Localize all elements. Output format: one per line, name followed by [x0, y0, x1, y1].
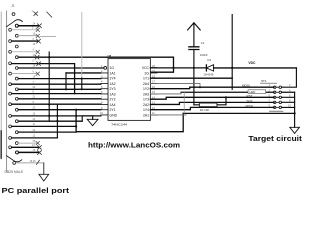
pin 18-25 gnd pin	[13, 162, 16, 165]
wire pin 2	[12, 29, 37, 31]
junction dot	[81, 88, 83, 90]
junction dot	[56, 120, 58, 122]
ground symbol left-bottom	[39, 174, 49, 181]
X pin2	[36, 28, 40, 32]
junction dot	[48, 56, 50, 58]
diode D1	[205, 65, 207, 71]
RST row from U1 pin14	[150, 97, 274, 99]
svg-text:2Y3: 2Y3	[110, 87, 116, 91]
pin 3	[9, 40, 12, 43]
pin 5	[9, 62, 12, 65]
svg-text:VCC: VCC	[142, 66, 150, 70]
MISO row from U1 pin12	[150, 107, 274, 109]
wire pin 15	[18, 35, 55, 38]
pin 11	[9, 125, 12, 128]
ST1 pin numbers	[269, 83, 292, 107]
gnd step under U1	[82, 116, 93, 121]
X pin13	[38, 146, 42, 150]
X pin4	[36, 50, 40, 54]
svg-text:2A1: 2A1	[143, 113, 149, 117]
wire pin 8 to U1 pin6	[12, 93, 101, 95]
wire pin 24	[18, 131, 76, 133]
gnd drop wire left	[43, 163, 45, 174]
pin 17	[15, 56, 18, 59]
VCC row from U1 pin20 to diode	[150, 67, 206, 69]
pin 1	[12, 13, 15, 16]
ST1 pin circle right y92.25	[279, 91, 281, 93]
ST1 pin circle right y102.35	[279, 101, 281, 103]
wire pin 13	[12, 146, 39, 148]
svg-text:ST1: ST1	[261, 79, 267, 83]
svg-text:2A3: 2A3	[143, 92, 149, 96]
ST1 pin circle right y97.3	[279, 96, 281, 98]
wire pin 22 to U1 pin9	[18, 109, 101, 111]
svg-text:1G: 1G	[110, 66, 115, 70]
junction dot	[48, 115, 50, 117]
svg-text:VDC: VDC	[248, 61, 256, 65]
wire pin 20 to U1 pin5	[18, 88, 101, 90]
ground symbol under U1	[87, 119, 98, 125]
ST1 pin circle right y107.4	[279, 106, 281, 108]
svg-text:D1: D1	[208, 58, 212, 62]
U1 left pin stubs	[101, 73, 108, 115]
gray riser x184	[183, 92, 185, 113]
svg-text:RST: RST	[247, 94, 253, 98]
svg-text:100nF: 100nF	[200, 53, 208, 57]
wire gnd pins 18-25	[16, 162, 44, 164]
svg-text:1A3: 1A3	[110, 92, 116, 96]
svg-text:MOSI: MOSI	[242, 84, 250, 88]
svg-text:GND: GND	[110, 113, 118, 117]
slash mark	[37, 160, 40, 164]
sheet border fragment left edge	[0, 12, 2, 159]
wire pin 5	[12, 64, 75, 94]
capacitor C1	[189, 47, 199, 50]
pin 20	[15, 88, 18, 91]
pin 2	[9, 28, 12, 31]
X on pin17 row	[35, 55, 39, 59]
power arrow VCC	[188, 23, 201, 47]
wire pin 7 to U1 pin4	[12, 83, 101, 85]
wire pin 23	[18, 120, 82, 122]
vertical bus x57.4	[56, 104, 58, 137]
svg-text:C1: C1	[201, 41, 205, 45]
SCK row from U1 pin13	[150, 102, 274, 104]
pin 24	[15, 131, 18, 134]
junction dot vdd line	[193, 67, 195, 69]
OE tie top row to U1 pin19	[49, 57, 173, 72]
svg-text:MISO: MISO	[246, 104, 254, 108]
ST1 mid links	[276, 87, 279, 107]
wire shell pin	[19, 151, 39, 153]
junction dot	[75, 109, 77, 111]
MOSI row from U1 pin16	[150, 87, 274, 89]
U1 right labels	[142, 66, 150, 117]
vertical bus x50 (OE tie to gnd)	[48, 52, 50, 121]
pin 18	[15, 67, 18, 70]
junction dot R1 to RST	[225, 96, 227, 98]
GND vertical right	[294, 92, 296, 127]
pin 13	[9, 146, 12, 149]
ground symbol right	[290, 127, 300, 133]
pin 7	[9, 83, 12, 86]
wire vertical bus x82 lower	[81, 78, 83, 89]
svg-text:2Y4: 2Y4	[110, 77, 116, 81]
bottom gnd rail	[76, 113, 183, 131]
svg-text:Target circuit: Target circuit	[248, 134, 302, 143]
svg-text:2Y2: 2Y2	[110, 98, 116, 102]
wire pin 21 to U1 pin7	[18, 98, 101, 100]
svg-text:R1 10K: R1 10K	[200, 108, 209, 112]
ST1 pin circles right column	[279, 86, 281, 88]
row 1Y1 from U1 pin18	[150, 77, 232, 79]
svg-text:18,25: 18,25	[30, 160, 37, 163]
vertical bus x76.1 gnd riser	[75, 110, 77, 132]
svg-text:DB25 MALE: DB25 MALE	[5, 170, 24, 174]
gnd link row to target	[183, 112, 294, 114]
svg-text:2Y1: 2Y1	[110, 108, 116, 112]
pin 25	[15, 142, 18, 145]
resistor R1	[199, 103, 217, 107]
VCC feed to ST1 pin2	[282, 68, 297, 87]
junction dot at VCC row crossing	[172, 67, 174, 69]
IC U1 body	[108, 59, 150, 121]
svg-text:U1: U1	[108, 55, 112, 59]
pin 19	[15, 77, 18, 80]
sheet border dark segment	[0, 131, 2, 158]
ST1 underline	[261, 82, 277, 84]
svg-text:74HC244: 74HC244	[111, 123, 127, 127]
svg-text:1Y4: 1Y4	[143, 108, 149, 112]
junction dot	[75, 125, 77, 127]
U1 pin numbers	[100, 64, 155, 115]
junction dot	[294, 112, 296, 114]
wire pin 9 to U1 pin8	[12, 103, 101, 105]
ST1 pin circle left y102.35	[274, 101, 276, 103]
X pin3	[37, 39, 41, 43]
wire pin 3	[12, 40, 39, 42]
svg-text:SCK: SCK	[247, 99, 253, 103]
pin 21	[15, 97, 18, 100]
pin 10	[9, 115, 12, 118]
gray loop 2A4	[150, 83, 200, 87]
gray loop 2A3	[150, 92, 181, 94]
X pin14	[37, 24, 41, 28]
pin 4	[9, 50, 12, 53]
LED net label box	[248, 90, 266, 94]
svg-text:1Y1: 1Y1	[143, 77, 149, 81]
svg-text:PC parallel port: PC parallel port	[2, 186, 70, 195]
U1 pin1 bubble	[104, 67, 107, 70]
ST1 pin circles left column	[274, 86, 276, 88]
X pin6	[36, 72, 40, 76]
wire pin 11	[12, 125, 77, 127]
diode D1 triangle	[206, 65, 213, 71]
wire pin 10 GND row	[12, 115, 101, 117]
junction dot	[56, 115, 58, 117]
svg-text:1Y3: 1Y3	[143, 98, 149, 102]
svg-text:1A4: 1A4	[110, 103, 116, 107]
junction dot	[199, 86, 201, 88]
U1 left labels	[110, 66, 118, 117]
wire pin 25	[18, 142, 37, 144]
connector bottom segment	[270, 110, 284, 112]
GND feeds ST1 pins 4,6,8,10	[282, 92, 295, 107]
svg-text:2G: 2G	[144, 71, 149, 75]
pin 16	[15, 45, 18, 48]
junction dot	[65, 88, 67, 90]
wire pin 17 to OE tie	[18, 56, 50, 58]
ST1 pin circle left y107.4	[274, 106, 276, 108]
pin 23	[15, 120, 18, 123]
wire to U1 pin2	[66, 72, 101, 74]
junction dot	[231, 67, 233, 69]
X pin25	[36, 141, 40, 145]
wire pin 6	[12, 73, 37, 75]
pin 8	[9, 92, 12, 95]
vertical bus x66 (to U1 pin2)	[65, 73, 67, 89]
pin 9	[9, 103, 12, 106]
pin 12	[9, 137, 12, 140]
vdd stub up at x232	[231, 15, 233, 90]
svg-text:1Y2: 1Y2	[143, 87, 149, 91]
svg-text:2A4: 2A4	[143, 82, 149, 86]
svg-text:1A1: 1A1	[110, 71, 116, 75]
svg-text:1N4148: 1N4148	[204, 72, 214, 76]
gray stub 2A1	[150, 114, 186, 116]
X pin15	[36, 34, 40, 38]
ST1 pin circle left y92.25	[274, 91, 276, 93]
svg-text:1A2: 1A2	[110, 82, 116, 86]
extra X mark top	[47, 12, 52, 17]
wire pin 4	[12, 51, 37, 53]
U1 right pin stubs	[150, 68, 157, 115]
wire diode anode to target vdd rail	[214, 67, 297, 69]
shell wire hump bottom	[7, 156, 22, 162]
pin 14	[15, 24, 18, 27]
ST1 pin circle left y97.3	[274, 96, 276, 98]
LED row from U1 pin?	[181, 91, 274, 93]
svg-text:2A2: 2A2	[143, 103, 149, 107]
pin 22	[15, 108, 18, 111]
R1 wires	[194, 97, 226, 105]
wire pin 14	[18, 25, 39, 27]
wire pin 19 to U1 pin3	[18, 78, 101, 80]
wire pin 12	[12, 137, 58, 139]
junction dot	[81, 78, 83, 80]
junction dot	[48, 103, 50, 105]
pin 26 shell	[16, 151, 19, 154]
X pin5	[37, 62, 41, 66]
junction dot	[75, 115, 77, 117]
no-connect X pin1	[34, 12, 38, 16]
gray vertical x81.6	[81, 13, 83, 79]
svg-text:http://www.LancOS.com: http://www.LancOS.com	[88, 140, 180, 149]
vdd vertical below cap to R1	[193, 50, 195, 105]
shell wire hump top	[7, 20, 23, 27]
pin 6	[9, 72, 12, 75]
pin 15	[15, 34, 18, 37]
X shell	[38, 151, 42, 155]
connector J1 body line	[6, 11, 8, 172]
svg-text:J1: J1	[11, 4, 15, 8]
wire pin 18 to U1 pin1	[18, 67, 103, 69]
